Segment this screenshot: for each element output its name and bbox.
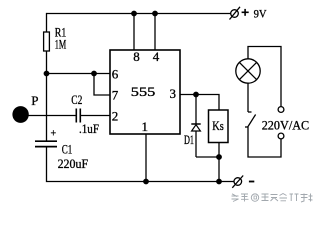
node dot pin8 rail bbox=[131, 11, 137, 17]
capacitor C1 plates bbox=[35, 140, 57, 142]
terminal 220V bottom bbox=[278, 133, 284, 139]
wire lamp loop top bbox=[248, 47, 281, 108]
switch blade bbox=[248, 115, 256, 128]
wire tie pins 6-7 bbox=[94, 74, 110, 96]
diode D1 leads bbox=[195, 95, 197, 125]
node dot pin1 rail bbox=[143, 179, 149, 185]
svg-text:4: 4 bbox=[153, 49, 160, 64]
wire pin1 bbox=[145, 134, 147, 182]
wire R1 bottom down to C1 bbox=[46, 51, 48, 141]
terminal minus circle bbox=[234, 178, 242, 186]
svg-text:555: 555 bbox=[131, 84, 156, 99]
wire pin8 bbox=[133, 14, 135, 51]
svg-text:.1uF: .1uF bbox=[79, 121, 99, 136]
terminal +9V circle bbox=[231, 10, 239, 18]
label minus dash bbox=[249, 181, 254, 183]
svg-text:1: 1 bbox=[142, 119, 148, 134]
wire pin6 horizontal bbox=[47, 73, 111, 75]
resistor R1 bbox=[44, 32, 50, 51]
svg-text:1M: 1M bbox=[55, 37, 67, 52]
svg-text:8: 8 bbox=[133, 49, 139, 64]
svg-text:2: 2 bbox=[112, 109, 118, 124]
svg-text:7: 7 bbox=[112, 88, 119, 103]
wire mic to pin2 through C2 bbox=[28, 115, 76, 117]
svg-text:9V: 9V bbox=[254, 6, 267, 20]
capacitor C2 plates bbox=[75, 109, 77, 123]
wire +9V top rail bbox=[47, 13, 231, 15]
lamp X bbox=[239, 62, 256, 79]
svg-text:3: 3 bbox=[170, 86, 176, 101]
label plus of 9V bbox=[242, 11, 249, 13]
wire Ks bottom to ground rail bbox=[218, 143, 220, 182]
svg-text:220uF: 220uF bbox=[58, 156, 89, 171]
node dot D1/Ks bottom bbox=[216, 154, 222, 160]
IC U1 555 box bbox=[110, 50, 180, 134]
microphone P bbox=[12, 106, 28, 123]
node dot tie 6-7 bbox=[91, 71, 97, 77]
wire left vertical from rail to R1 bbox=[46, 13, 48, 32]
diode D1 symbol bbox=[191, 123, 200, 125]
node dot pin4 rail bbox=[152, 11, 158, 17]
svg-text:6: 6 bbox=[112, 67, 119, 82]
svg-text:C1: C1 bbox=[62, 142, 73, 157]
node dot D1 top bbox=[193, 92, 199, 98]
svg-text:P: P bbox=[31, 93, 38, 108]
node dot Ks rail bbox=[216, 179, 222, 185]
svg-text:D1: D1 bbox=[184, 132, 194, 147]
svg-text:Ks: Ks bbox=[212, 118, 224, 133]
wire lamp loop bottom bbox=[248, 127, 281, 157]
wire pin3 to relay bbox=[180, 95, 219, 111]
svg-text:C2: C2 bbox=[71, 92, 82, 107]
wire C1 to ground rail bbox=[47, 147, 234, 182]
wire lamp to switch bbox=[247, 83, 249, 112]
switch contact ticks bbox=[248, 111, 252, 113]
svg-text:+: + bbox=[51, 129, 57, 140]
wire D1 bottom to Ks lead bbox=[196, 156, 219, 158]
wire pin4 bbox=[154, 14, 156, 51]
relay Ks box bbox=[209, 110, 229, 143]
terminal 220V top bbox=[278, 107, 284, 113]
watermark 头条 @卧龙会IT技术 bbox=[232, 194, 313, 203]
node dot R1/pin6 bbox=[44, 71, 50, 77]
lamp circle bbox=[236, 59, 260, 83]
svg-text:220V/AC: 220V/AC bbox=[262, 118, 310, 133]
